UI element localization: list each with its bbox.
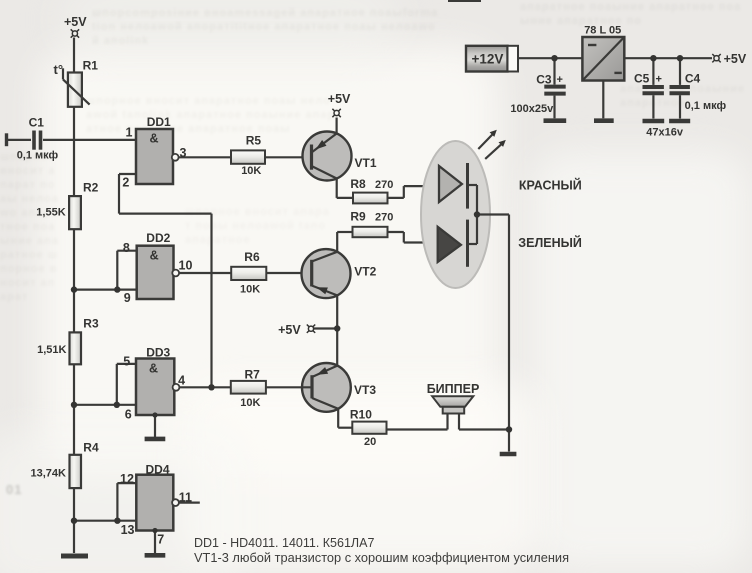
- svg-text:+: +: [557, 74, 563, 86]
- svg-text:R6: R6: [244, 250, 260, 264]
- svg-text:R5: R5: [246, 134, 262, 148]
- svg-text:&: &: [150, 249, 159, 263]
- svg-text:DD4: DD4: [146, 462, 170, 476]
- svg-text:+5V: +5V: [64, 15, 87, 29]
- svg-text:3: 3: [180, 146, 187, 160]
- svg-text:КРАСНЫЙ: КРАСНЫЙ: [519, 178, 582, 193]
- svg-text:12: 12: [120, 472, 134, 486]
- svg-text:DD3: DD3: [146, 346, 170, 360]
- svg-text:9: 9: [124, 291, 131, 305]
- svg-text:47x16v: 47x16v: [646, 127, 684, 139]
- svg-text:VT1: VT1: [355, 156, 377, 170]
- svg-text:+5V: +5V: [278, 323, 301, 337]
- svg-text:270: 270: [375, 179, 393, 191]
- svg-text:+: +: [656, 74, 662, 86]
- svg-text:10K: 10K: [240, 283, 260, 295]
- svg-text:7: 7: [157, 533, 164, 547]
- svg-text:DD1: DD1: [147, 115, 171, 129]
- svg-text:+5V: +5V: [328, 92, 351, 106]
- svg-text:ЗЕЛЕНЫЙ: ЗЕЛЕНЫЙ: [518, 235, 582, 250]
- svg-text:R4: R4: [83, 440, 99, 454]
- svg-text:VT3: VT3: [354, 383, 376, 397]
- svg-text:R10: R10: [350, 407, 372, 421]
- svg-text:10K: 10K: [241, 165, 261, 177]
- svg-text:DD2: DD2: [146, 231, 170, 245]
- svg-text:БИППЕР: БИППЕР: [427, 382, 480, 396]
- svg-text:C5: C5: [634, 72, 650, 86]
- svg-text:13,74K: 13,74K: [31, 468, 67, 480]
- svg-text:VT1-3 любой транзистор с хорош: VT1-3 любой транзистор с хорошим коэффиц…: [194, 550, 569, 565]
- svg-text:C4: C4: [685, 72, 701, 86]
- svg-text:270: 270: [375, 212, 393, 224]
- svg-text:R8: R8: [350, 177, 366, 191]
- svg-text:10K: 10K: [240, 397, 260, 409]
- svg-text:R9: R9: [350, 210, 366, 224]
- svg-text:R7: R7: [245, 368, 261, 382]
- svg-text:C3: C3: [536, 73, 552, 87]
- svg-text:+12V: +12V: [472, 52, 504, 67]
- svg-text:8: 8: [123, 241, 130, 255]
- svg-text:1: 1: [126, 126, 133, 140]
- svg-text:10: 10: [179, 259, 193, 273]
- svg-text:1,51K: 1,51K: [37, 344, 66, 356]
- svg-text:R1: R1: [83, 59, 99, 73]
- svg-text:6: 6: [125, 408, 132, 422]
- svg-text:20: 20: [364, 436, 376, 448]
- svg-text:11: 11: [179, 490, 192, 504]
- svg-text:t°: t°: [54, 62, 64, 77]
- svg-text:4: 4: [178, 374, 185, 388]
- svg-text:0,1 мкф: 0,1 мкф: [17, 150, 59, 162]
- svg-text:13: 13: [121, 523, 135, 537]
- svg-text:C1: C1: [29, 116, 45, 130]
- svg-text:&: &: [149, 361, 158, 375]
- svg-text:R3: R3: [83, 317, 99, 331]
- svg-text:5: 5: [123, 355, 130, 369]
- svg-text:R2: R2: [83, 181, 99, 195]
- svg-text:VT2: VT2: [354, 265, 376, 279]
- svg-text:+5V: +5V: [724, 52, 747, 66]
- svg-text:&: &: [150, 131, 159, 145]
- svg-text:DD1 - HD4011. 14011. К561ЛА7: DD1 - HD4011. 14011. К561ЛА7: [194, 536, 374, 550]
- svg-text:2: 2: [122, 175, 129, 189]
- svg-text:0,1 мкф: 0,1 мкф: [685, 100, 727, 112]
- svg-text:78 L 05: 78 L 05: [584, 25, 621, 37]
- svg-text:100x25v: 100x25v: [510, 103, 554, 115]
- svg-text:1,55K: 1,55K: [36, 207, 65, 219]
